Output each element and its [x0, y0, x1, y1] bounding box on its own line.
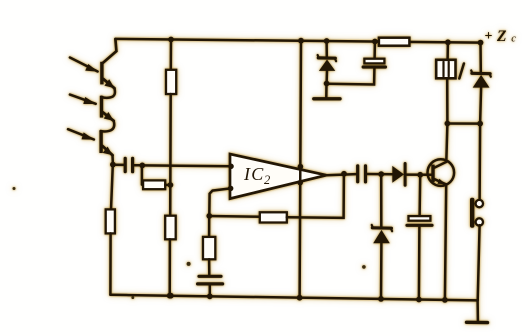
node A [139, 163, 145, 169]
resistor R3 [142, 166, 170, 190]
node op-amp V- [297, 180, 303, 186]
node junction left [445, 121, 451, 127]
wire feedback right [287, 174, 344, 218]
svg-text:2: 2 [264, 173, 270, 187]
wire collector up [446, 124, 447, 162]
node rail R3 bottom [168, 293, 174, 299]
resistor R7 [203, 237, 215, 259]
resistor R1 [166, 70, 176, 94]
wire C2 to D1 [367, 173, 392, 176]
node output [341, 171, 347, 177]
node emitter ground [442, 297, 448, 303]
node op-amp V+ [298, 164, 304, 170]
light arrow 2 [70, 95, 96, 104]
wire emitter down [445, 184, 446, 300]
label +Zc [485, 28, 517, 45]
wire rail to R1 [170, 40, 173, 70]
phototransistor V2 [100, 96, 114, 132]
capacitor C3 [363, 39, 385, 67]
wire node A to op-amp +input [142, 164, 231, 167]
svg-text:c: c [511, 33, 516, 44]
light arrow 3 [68, 129, 95, 140]
wire R5 to ground rail [168, 239, 171, 295]
wire bottom ground rail [110, 295, 477, 301]
phototransistor V3 [99, 131, 113, 165]
resistor R2 [106, 209, 115, 233]
zener VD3 [372, 174, 392, 299]
node C4 ground [207, 293, 213, 299]
resistor R6 [379, 38, 410, 46]
capacitor C5 [407, 175, 432, 300]
svg-text:Z: Z [496, 28, 507, 45]
node R5 ground [167, 293, 173, 299]
wire to button [478, 124, 481, 200]
wire feedback left [209, 215, 259, 218]
node junction right [477, 121, 483, 127]
wire op-amp output [326, 174, 356, 175]
resistor R5 [165, 216, 176, 240]
node R3/R1 tap [168, 182, 174, 188]
phototransistor V1 [100, 39, 116, 98]
node VD3 ground [378, 296, 384, 302]
svg-text:+: + [485, 29, 493, 44]
svg-text:IC: IC [243, 164, 264, 184]
zener VD1 [318, 38, 337, 83]
capacitor C2 [358, 166, 366, 182]
node emitter junction [110, 162, 116, 168]
wire collector junction row [447, 122, 480, 125]
label 1 [459, 64, 464, 79]
ground (bottom right) [467, 300, 488, 322]
fuse F1 [436, 39, 455, 123]
wire VD1 to C3 [327, 69, 375, 85]
node rail/R1 [168, 37, 174, 43]
wire top supply rail [115, 39, 480, 43]
node zener tap [378, 171, 384, 177]
node cap tap [417, 172, 423, 178]
zener VD2 [471, 40, 491, 124]
wire long vertical supply [300, 41, 301, 298]
wire R2 to ground rail [109, 233, 112, 294]
wire R7 branch [208, 216, 211, 237]
ground (VD1) [314, 84, 340, 99]
capacitor C4 [198, 259, 223, 296]
label IC2 [243, 164, 270, 187]
wire inverting input [209, 188, 230, 215]
capacitor C1 [125, 158, 132, 171]
node rail bottom [297, 295, 303, 301]
light arrow 1 [70, 58, 98, 72]
op-amp U1 [228, 154, 326, 199]
wire button to ground rail [478, 225, 480, 300]
resistor R4 [260, 212, 287, 222]
node VD1 anode [324, 81, 330, 87]
diode D1 [392, 164, 431, 186]
node feedback [206, 213, 212, 219]
stray ink dots [13, 187, 366, 299]
pushbutton S1 [470, 198, 483, 228]
node C5 ground [416, 297, 422, 303]
wire left column [111, 165, 113, 210]
wire C1 to node A [134, 164, 142, 167]
node rail top [298, 38, 304, 44]
wire emitter to C1 [113, 164, 124, 167]
transistor Q1 [428, 159, 455, 186]
wire R1 to R5 [169, 94, 172, 216]
